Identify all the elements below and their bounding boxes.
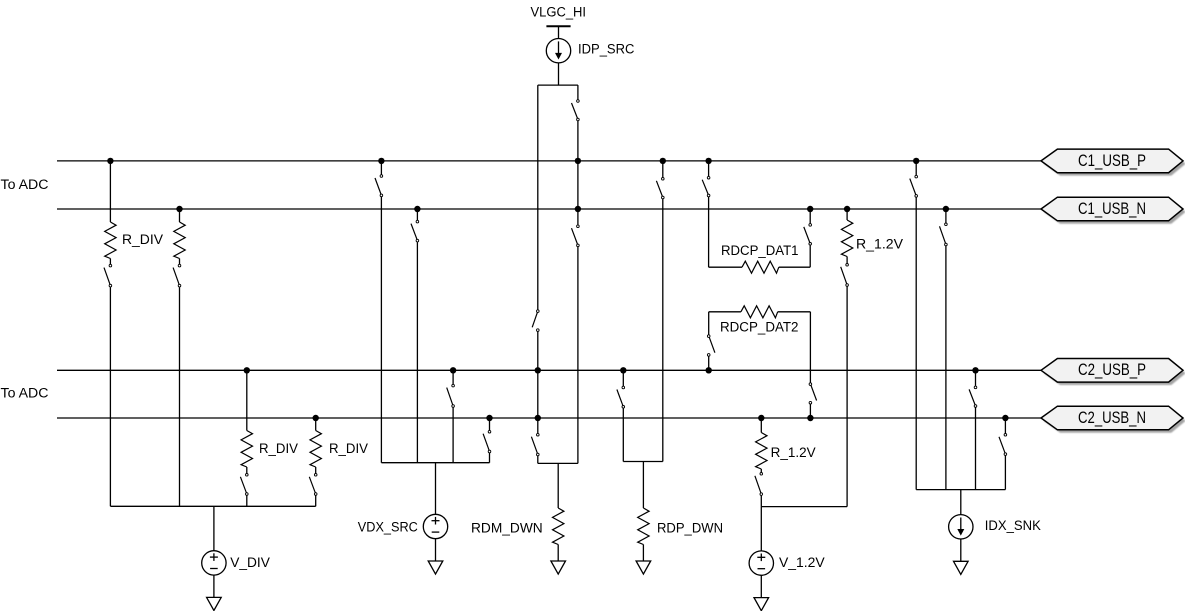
- wire rail to R_DIV4: [315, 418, 317, 431]
- wire bus to V_DIV: [213, 506, 215, 550]
- junction C2_USB_N / RDM branch: [535, 415, 541, 421]
- switch VDX path at x=417.4: [411, 220, 419, 242]
- wire DAT2 top left: [709, 311, 741, 313]
- junction C2_USB_P / RDP branch: [620, 367, 626, 373]
- svg-text:R_DIV: R_DIV: [329, 441, 368, 457]
- junction C2_USB_N / IDX switch: [1002, 415, 1008, 421]
- wire IDX bus: [916, 489, 1005, 491]
- wire switch to V_1.2V bus (right): [846, 287, 848, 507]
- svg-text:RDCP_DAT1: RDCP_DAT1: [721, 243, 799, 259]
- wire IDX bus to IDX_SNK: [960, 490, 962, 515]
- ground below IDX_SNK: [954, 561, 969, 574]
- wire DAT2 top right: [778, 311, 811, 313]
- wire VDX bus: [381, 462, 489, 464]
- wire C1_USB_N to DAT1 switch: [809, 209, 811, 223]
- wire V_DIV to ground: [213, 575, 215, 597]
- wire switch to RDM bus: [537, 456, 539, 463]
- junction C2_USB_P / R_DIV3: [244, 367, 250, 373]
- switch IDP to C2_USB_P: [532, 310, 539, 332]
- ground below RDP_DWN: [636, 561, 651, 574]
- wire rail to IDX switch at x=945.9: [945, 209, 947, 223]
- resistor R_DIV (#2): [174, 222, 185, 259]
- wire DAT1 left side down: [708, 197, 710, 267]
- wire C2_USB_N to R_1.2V: [760, 418, 762, 433]
- wire switch to C2_USB_P: [708, 356, 710, 370]
- resistor R_DIV (#3): [241, 431, 252, 468]
- current source IDP_SRC: [546, 39, 570, 63]
- switch IDX path at x=945.9: [940, 223, 948, 246]
- svg-text:RDP_DWN: RDP_DWN: [657, 521, 723, 537]
- junction C1_USB_P / VDX switch: [378, 158, 384, 164]
- resistor R_1.2V (#2): [756, 433, 767, 470]
- node C2_USB_N connector: [1041, 406, 1185, 432]
- wire V_1.2V bus: [761, 506, 847, 508]
- wire C1_USB_P to C1_USB_N stub: [577, 161, 579, 209]
- wire C2_USB_N to RDM switch: [537, 418, 539, 433]
- wire switch to VDX bus at x=489.5: [489, 453, 491, 463]
- svg-text:R_1.2V: R_1.2V: [856, 237, 904, 253]
- wire switch to divider bus (#3): [246, 496, 248, 507]
- wire rail to switch at x=453.1: [452, 370, 454, 384]
- wire DAT2 right side down: [809, 312, 811, 383]
- wire C1_USB_N to RDM switch: [577, 209, 579, 225]
- wire rail to R_DIV2: [179, 209, 181, 222]
- wire IDP left branch upper: [537, 85, 539, 310]
- resistor R_1.2V (#1): [841, 220, 852, 257]
- wire rail to R_DIV1: [109, 161, 111, 222]
- switch VDX path at x=453.1: [447, 384, 455, 407]
- wire DAT1 right side up: [809, 245, 811, 267]
- svg-text:R_1.2V: R_1.2V: [771, 445, 817, 461]
- wire C2_USB_P rail: [57, 369, 1042, 371]
- wire C2_USB_N rail: [57, 417, 1042, 419]
- wire RDM bus to resistor: [557, 463, 559, 508]
- wire switch to C2_USB_P: [537, 332, 539, 371]
- switch below R_DIV1: [104, 264, 112, 287]
- ground below VDX_SRC: [428, 561, 443, 574]
- node C2_USB_P connector: [1041, 359, 1185, 386]
- switch IDX path at x=975.5: [969, 386, 977, 407]
- junction C2_USB_N / RDCP_DAT2 right: [807, 415, 813, 421]
- switch IDX path at x=1005.4: [999, 434, 1007, 456]
- wire switch to divider bus (#4): [315, 496, 317, 507]
- wire C1_USB_N to R_1.2V: [846, 209, 848, 220]
- switch below R_DIV4: [309, 474, 317, 496]
- wire rail to IDX switch at x=1005.4: [1004, 418, 1006, 433]
- svg-text:RDCP_DAT2: RDCP_DAT2: [720, 320, 799, 336]
- junction C2_USB_P / RDCP_DAT2 left: [706, 367, 712, 373]
- wire switch to C1_USB_P: [577, 121, 579, 161]
- wire rail to switch at x=381.4: [380, 161, 382, 175]
- junction C2_USB_P / IDX switch: [972, 367, 978, 373]
- switch RDCP_DAT2 left: [707, 335, 715, 356]
- wire C1_USB_N rail: [57, 208, 1042, 210]
- switch VDX path at x=489.5: [483, 430, 491, 452]
- wire IDP_SRC to top bus: [558, 63, 560, 85]
- switch VDX path at x=381.4: [375, 175, 383, 197]
- switch IDX path at x=916.2: [910, 175, 918, 197]
- wire RDM bus: [538, 462, 578, 464]
- switch C1_USB_P to RDP_DWN: [656, 178, 664, 199]
- wire IDX_SNK to ground: [960, 539, 962, 561]
- wire rail to switch at x=417.4: [416, 209, 418, 220]
- wire VDX_SRC to ground: [435, 539, 437, 561]
- svg-text:C2_USB_N: C2_USB_N: [1078, 408, 1146, 427]
- ground below V_1.2V: [754, 598, 769, 611]
- switch IDP to C1_USB_P: [572, 100, 580, 121]
- wire switch to VDX bus at x=417.4: [416, 242, 418, 463]
- svg-text:To ADC: To ADC: [1, 177, 49, 193]
- current source IDX_SNK: [949, 515, 973, 539]
- wire C1_USB_P rail: [57, 160, 1042, 162]
- junction C1_USB_N / VDX switch: [414, 206, 420, 212]
- junction C1_USB_N / RDCP_DAT1 right: [807, 206, 813, 212]
- voltage source V_DIV: [202, 551, 226, 575]
- svg-text:VLGC_HI: VLGC_HI: [531, 5, 587, 21]
- switch C2_USB_P to RDP_DWN: [617, 386, 625, 408]
- wire IDP right branch stub: [577, 85, 579, 99]
- wire switch to RDP bus (left): [622, 408, 624, 461]
- switch RDCP_DAT1 left: [702, 176, 710, 196]
- resistor RDP_DWN: [638, 508, 649, 545]
- node C1_USB_N connector: [1041, 197, 1185, 224]
- wire IDP top bus: [538, 84, 578, 86]
- switch RDCP_DAT2 right: [809, 383, 816, 404]
- wire R_DIV1 to switch: [109, 259, 111, 265]
- svg-text:R_DIV: R_DIV: [122, 232, 164, 248]
- junction C2_USB_P / VDX switch: [450, 367, 456, 373]
- wire rail to switch at x=489.5: [489, 418, 491, 430]
- junction C1_USB_P / IDP branch: [575, 158, 581, 164]
- resistor R_DIV (#4): [310, 431, 321, 468]
- ground below RDM_DWN: [551, 561, 566, 574]
- svg-text:C1_USB_N: C1_USB_N: [1078, 199, 1146, 218]
- junction C1_USB_P / R_DIV1: [107, 158, 113, 164]
- wire RDP bus to resistor: [642, 462, 644, 509]
- junction C1_USB_N / R_DIV2: [176, 206, 182, 212]
- wire R_1.2V to switch: [846, 257, 848, 264]
- junction C1_USB_P / RDP branch: [660, 158, 666, 164]
- wire VDX bus to VDX_SRC: [435, 463, 437, 515]
- wire R_DIV3 to switch: [246, 467, 248, 473]
- resistor R_DIV (#1): [105, 222, 116, 259]
- wire DAT2 left side down: [708, 312, 710, 335]
- wire C2_USB_P to RDP switch: [622, 370, 624, 386]
- resistor RDCP_DAT2: [741, 306, 778, 318]
- switch RDCP_DAT1 right: [804, 224, 812, 246]
- wire R_DIV2 to switch: [179, 259, 181, 265]
- wire rail to IDX switch at x=975.5: [975, 370, 977, 386]
- wire RDP bus: [623, 461, 663, 463]
- junction C2_USB_P / IDP branch: [535, 367, 541, 373]
- switch below R_1.2V #1: [841, 264, 849, 287]
- svg-text:C2_USB_P: C2_USB_P: [1078, 360, 1146, 379]
- resistor RDM_DWN: [553, 508, 564, 545]
- junction C1_USB_N / R_1.2V: [844, 206, 850, 212]
- wire switch to VDX bus at x=453.1: [452, 408, 454, 463]
- wire switch to IDX bus at x=916.2: [915, 197, 917, 489]
- resistor RDCP_DAT1: [742, 261, 779, 273]
- wire divider bus: [110, 505, 315, 507]
- wire switch to V_1.2V bus (left): [760, 496, 762, 507]
- junction C2_USB_N / R_1.2V: [758, 415, 764, 421]
- junction C2_USB_N / VDX switch: [486, 415, 492, 421]
- wire RDM_DWN to ground: [557, 545, 559, 562]
- switch C1_USB_N to RDM_DWN: [572, 225, 580, 247]
- svg-text:R_DIV: R_DIV: [259, 441, 298, 457]
- wire switch to IDX bus at x=975.5: [975, 408, 977, 490]
- svg-text:V_1.2V: V_1.2V: [779, 555, 825, 571]
- svg-text:RDM_DWN: RDM_DWN: [471, 521, 543, 537]
- svg-text:VDX_SRC: VDX_SRC: [358, 519, 418, 535]
- switch below R_1.2V #2: [755, 473, 763, 496]
- wire switch to RDP bus (right): [662, 199, 664, 462]
- node C1_USB_P connector: [1041, 149, 1185, 175]
- wire R_DIV4 to switch: [315, 467, 317, 473]
- svg-text:To ADC: To ADC: [1, 385, 49, 401]
- wire C1_USB_P to RDP switch: [662, 161, 664, 177]
- wire C2_USB_P to C2_USB_N stub: [537, 370, 539, 418]
- svg-text:C1_USB_P: C1_USB_P: [1078, 151, 1146, 170]
- wire RDP_DWN to ground: [642, 545, 644, 562]
- switch C2_USB_N to RDM_DWN: [531, 433, 539, 455]
- junction C1_USB_N / RDM branch: [575, 206, 581, 212]
- junction C2_USB_N / R_DIV4: [313, 415, 319, 421]
- wire bus to V_1.2V: [760, 507, 762, 551]
- wire switch to C2_USB_N: [809, 404, 811, 418]
- junction C1_USB_N / IDX switch: [943, 206, 949, 212]
- wire switch to VDX bus at x=381.4: [380, 197, 382, 463]
- voltage source VDX_SRC: [423, 514, 447, 538]
- wire switch to divider bus (#2): [179, 287, 181, 506]
- wire VLGC_HI to IDP_SRC: [558, 26, 560, 38]
- wire DAT1 bottom right: [779, 266, 810, 268]
- svg-text:IDP_SRC: IDP_SRC: [578, 42, 634, 58]
- wire V_1.2V to ground: [760, 575, 762, 597]
- wire C1_USB_P to DAT1 switch: [708, 161, 710, 176]
- switch below R_DIV3: [240, 474, 248, 496]
- wire R_1.2V to switch: [760, 469, 762, 472]
- wire switch to IDX bus at x=945.9: [945, 246, 947, 490]
- wire DAT1 bottom left: [709, 266, 742, 268]
- switch below R_DIV2: [173, 264, 181, 287]
- wire rail to R_DIV3: [246, 370, 248, 430]
- voltage source V_1.2V: [749, 551, 773, 575]
- wire switch to RDM bus (right): [577, 247, 579, 464]
- ground below V_DIV: [207, 597, 222, 610]
- wire switch to divider bus (#1): [109, 287, 111, 506]
- svg-text:V_DIV: V_DIV: [230, 555, 270, 571]
- supply rail VLGC_HI bar: [546, 25, 570, 27]
- junction C1_USB_P / RDCP_DAT1 left: [705, 158, 711, 164]
- wire switch to IDX bus at x=1005.4: [1004, 456, 1006, 490]
- svg-text:IDX_SNK: IDX_SNK: [985, 518, 1041, 534]
- wire rail to IDX switch at x=916.2: [915, 161, 917, 175]
- junction C1_USB_P / IDX switch: [913, 158, 919, 164]
